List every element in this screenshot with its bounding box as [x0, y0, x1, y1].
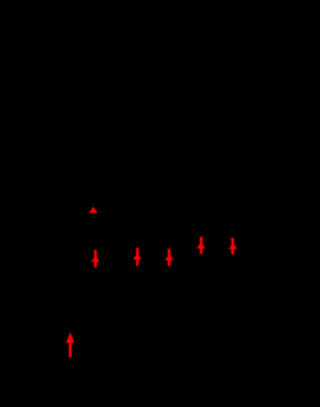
annotation arrow A1	[69, 341, 72, 358]
data point P3 with error bar	[168, 249, 171, 266]
data point P5 with error bar	[231, 238, 234, 255]
data point P4 with error bar	[200, 237, 203, 254]
data marker M1 (lone caret, apex up)	[89, 207, 98, 213]
data point P1 with error bar	[94, 250, 97, 268]
data point P2 with error bar	[136, 248, 139, 266]
